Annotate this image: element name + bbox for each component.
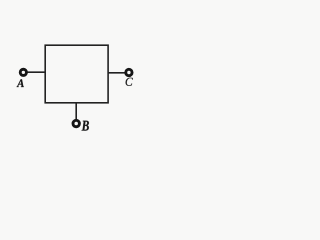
box (black-box network body) bbox=[45, 45, 108, 103]
terminal C circle bbox=[126, 69, 132, 75]
label B bbox=[82, 121, 89, 131]
wire bottom (terminal B lead) bbox=[75, 103, 77, 120]
wire left (terminal A lead) bbox=[27, 71, 46, 73]
terminal A circle bbox=[20, 69, 26, 75]
terminal B circle bbox=[73, 120, 79, 126]
label A bbox=[17, 79, 24, 87]
wire right (terminal C lead) bbox=[108, 72, 125, 74]
label C bbox=[126, 78, 133, 86]
